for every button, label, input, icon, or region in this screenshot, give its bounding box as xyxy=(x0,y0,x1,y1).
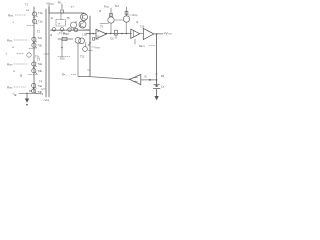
resistor R11 xyxy=(62,37,67,40)
transistor Q5 xyxy=(71,22,77,28)
node junction xyxy=(89,42,91,44)
stub Q14 emitter xyxy=(110,23,112,33)
transistor Q15 xyxy=(123,16,129,22)
svg-text:IE: IE xyxy=(14,93,17,97)
wire xyxy=(126,7,128,16)
svg-text:−I: −I xyxy=(5,52,8,56)
transistor Q8 xyxy=(68,28,72,32)
wire xyxy=(48,6,50,14)
transistor Q3a xyxy=(32,62,36,66)
svg-text:T1a: T1a xyxy=(38,11,43,15)
transistor Q3b xyxy=(32,69,36,73)
resistor R201 xyxy=(125,11,128,14)
wire xyxy=(110,8,112,17)
wire dash mid xyxy=(17,53,24,55)
transistor Q8b xyxy=(74,28,78,32)
A4 marks xyxy=(135,78,138,82)
wire dashed input 3 xyxy=(14,63,28,65)
node dot apex A4 xyxy=(129,79,130,80)
svg-text:T2b: T2b xyxy=(38,44,43,48)
tick marks xyxy=(88,45,90,46)
wire tick xyxy=(44,53,49,55)
wire tick bus xyxy=(88,69,91,71)
wire mid link xyxy=(58,38,73,40)
svg-text:1.5k: 1.5k xyxy=(82,34,87,37)
resistor R5 xyxy=(61,10,64,13)
buffer A3 xyxy=(143,29,154,40)
wire mid rail xyxy=(51,29,91,31)
svg-text:T16: T16 xyxy=(140,25,145,28)
svg-text:+I: +I xyxy=(13,70,15,73)
wire dashed input 2 xyxy=(14,39,28,41)
node dot xyxy=(92,33,94,35)
node dot xyxy=(121,33,123,35)
wire tick node xyxy=(156,73,158,75)
op-amp A1 xyxy=(96,29,107,38)
svg-text:T2a: T2a xyxy=(38,36,43,40)
transistor Q10 internals xyxy=(80,23,84,28)
svg-text:IB: IB xyxy=(20,75,23,78)
wire dashed input 4 xyxy=(14,86,26,88)
ground arrow right xyxy=(154,96,158,100)
buffer A2 inner bar xyxy=(133,31,135,37)
capacitor C1 xyxy=(93,38,95,41)
svg-text:T3b: T3b xyxy=(38,69,43,73)
node junction xyxy=(33,67,34,68)
wire dash xyxy=(71,73,76,75)
transistor Q6 xyxy=(52,28,56,32)
svg-text:+I: +I xyxy=(12,46,14,49)
node junction xyxy=(26,93,27,94)
svg-text:T12: T12 xyxy=(80,56,85,59)
wire dash bottom xyxy=(58,56,70,58)
vout column xyxy=(156,34,158,85)
buffer A4 (pointing left) xyxy=(130,74,141,84)
node dot xyxy=(156,79,158,81)
ground arrow xyxy=(25,99,29,103)
ground dot xyxy=(26,104,28,106)
node dot xyxy=(110,33,112,35)
wire dash link1 xyxy=(27,25,34,27)
diode D1 xyxy=(115,30,118,35)
main vertical bus xyxy=(89,16,91,77)
wire tick low xyxy=(89,49,93,51)
svg-text:T4a: T4a xyxy=(38,84,43,88)
wire stub to box xyxy=(60,13,62,20)
wire A4 input xyxy=(141,79,157,81)
node dot VOUT xyxy=(156,33,158,35)
transistor Q13b xyxy=(83,47,88,52)
svg-text:−I: −I xyxy=(12,21,14,24)
node junction xyxy=(61,47,63,49)
node junctions left bus xyxy=(33,17,34,18)
svg-text:T14: T14 xyxy=(115,5,120,8)
svg-text:R10: R10 xyxy=(60,58,65,61)
resistor R200 xyxy=(110,13,113,16)
wire stub Q5 down xyxy=(73,28,75,30)
wire top rail xyxy=(49,12,84,14)
wire tick to bus xyxy=(41,88,46,90)
wire xyxy=(61,4,63,9)
node junction xyxy=(33,88,34,89)
wire left column bus xyxy=(33,7,35,93)
transistor Q7 xyxy=(60,28,64,32)
wire A1 output xyxy=(107,33,132,35)
svg-text:+VCC: +VCC xyxy=(46,2,54,6)
wire vert q12 xyxy=(85,43,87,47)
transistor Q9 internals xyxy=(82,15,86,20)
stub Q15 emitter xyxy=(125,22,127,33)
transistor Q1b xyxy=(32,19,36,23)
transistor emitter arrows left column xyxy=(35,16,37,94)
node dot xyxy=(89,33,91,35)
svg-text:T1b: T1b xyxy=(38,20,43,24)
wire dash link2 xyxy=(29,48,36,50)
wire dash RL xyxy=(149,45,155,47)
transistor Q1a xyxy=(32,12,36,16)
wire ground rail bottom-left xyxy=(19,92,40,94)
transistor Q14 xyxy=(108,17,114,23)
stub below A2 xyxy=(134,39,136,44)
wire tick xyxy=(84,29,90,31)
wire left link xyxy=(100,23,109,25)
buffer A2 xyxy=(131,29,140,38)
svg-text:T303: T303 xyxy=(63,33,69,36)
current source box T8 xyxy=(56,20,66,26)
wire dashed input 1 xyxy=(15,14,26,16)
capacitor C2 xyxy=(153,85,160,96)
power bus V- line1 xyxy=(45,9,47,97)
node dot xyxy=(125,33,127,35)
svg-text:R203: R203 xyxy=(133,14,138,17)
wire dash link3 xyxy=(28,74,38,76)
node junction xyxy=(33,42,34,43)
op-amp A1 marks xyxy=(97,32,99,36)
transistor Q12 xyxy=(79,38,85,44)
transistor Q2c xyxy=(27,53,31,57)
feedback line xyxy=(78,76,130,79)
wire dash xyxy=(92,46,96,48)
opamp A1 input wire xyxy=(86,33,96,35)
svg-text:RF→: RF→ xyxy=(62,73,68,77)
diode D1 tail xyxy=(115,35,117,39)
svg-text:R200: R200 xyxy=(104,5,109,8)
transistor Q2a xyxy=(32,37,36,41)
svg-text:T3a: T3a xyxy=(38,62,43,66)
transistor Q4b xyxy=(31,89,35,93)
arrowhead on wire xyxy=(149,79,151,81)
wire vert xyxy=(61,41,63,57)
wire vert from mid xyxy=(77,43,79,76)
wire base link xyxy=(114,19,123,21)
transistor Q9 xyxy=(81,14,88,21)
wire ground stem xyxy=(26,93,28,98)
transistor Q2b xyxy=(32,43,36,47)
power bus V- line2 xyxy=(48,7,50,97)
node dot xyxy=(105,33,107,35)
transistor Q4a xyxy=(31,83,35,87)
wire output xyxy=(154,33,163,35)
cap blob xyxy=(155,85,157,87)
wire A2 to A3 xyxy=(140,33,144,35)
transistor Q10 xyxy=(79,21,86,28)
transistor Q11 xyxy=(75,37,81,43)
wire dash xyxy=(129,14,132,16)
